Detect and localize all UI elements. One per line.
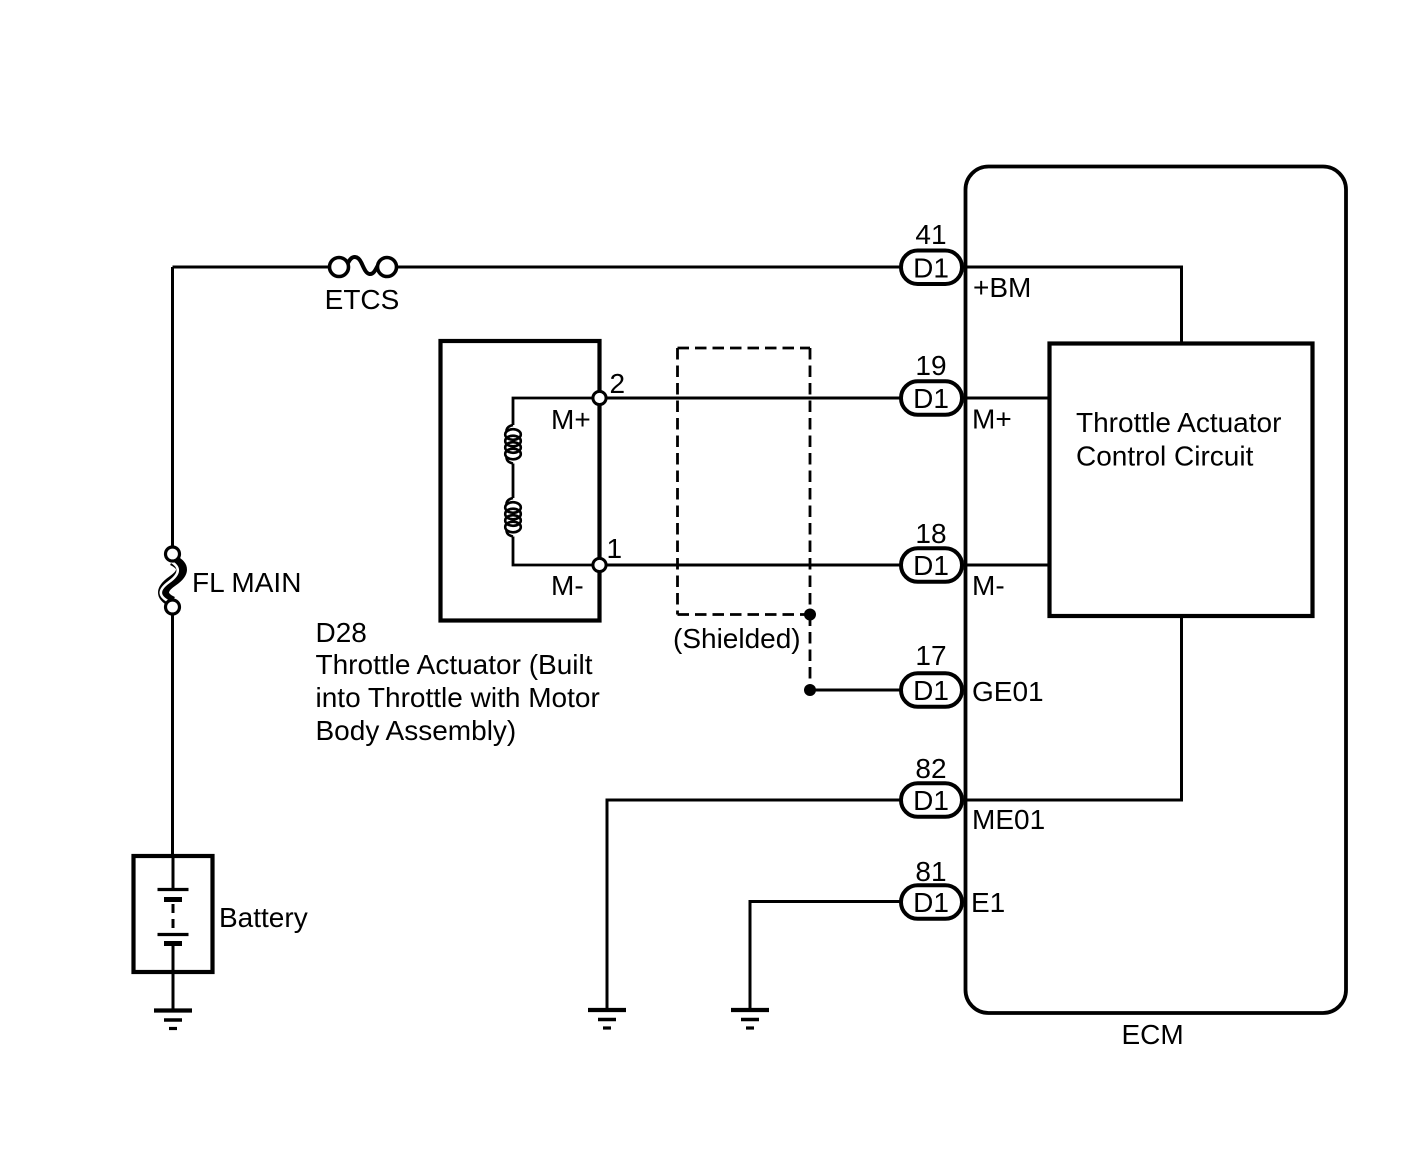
svg-text:ME01: ME01 (972, 804, 1045, 835)
svg-text:Body Assembly): Body Assembly) (316, 715, 517, 746)
wire: motor inner bottom to pin 1 (513, 537, 597, 566)
svg-text:Throttle Actuator: Throttle Actuator (1076, 407, 1281, 438)
svg-text:M+: M+ (551, 404, 591, 435)
svg-text:M-: M- (551, 570, 584, 601)
svg-text:1: 1 (607, 533, 623, 564)
svg-text:D1: D1 (913, 887, 949, 918)
wire: battery positive feed, top horizontal left of fuse (173, 266, 329, 269)
wire: E1 ground branch vertical (749, 900, 752, 1009)
svg-text:D28: D28 (316, 617, 367, 648)
connector D1 pin 18 (901, 548, 962, 582)
svg-text:17: 17 (915, 640, 946, 671)
battery plate short - (cell 1) (164, 897, 182, 902)
motor winding coil upper (505, 425, 521, 464)
svg-text:18: 18 (915, 518, 946, 549)
ground: ME01 ground (588, 1010, 626, 1028)
wire: ME01 ground branch horizontal (607, 799, 901, 802)
junction dot on shield box (804, 609, 816, 621)
svg-text:Control Circuit: Control Circuit (1076, 441, 1254, 472)
svg-text:into Throttle with Motor: into Throttle with Motor (316, 682, 600, 713)
fuse ETCS (330, 257, 397, 277)
ground: battery ground (154, 1011, 192, 1029)
wire: battery bottom lead (172, 946, 175, 972)
wire: M- internal to control circuit (963, 564, 1050, 567)
wire: shield drain to connector D1-17 (810, 689, 901, 692)
wire: motor inner middle (512, 464, 515, 499)
svg-text:Battery: Battery (219, 902, 308, 933)
junction dot on shield drain (804, 684, 816, 696)
wire: battery to ground (172, 971, 175, 1010)
wire: left vertical from top wire down to FL MAIN (171, 267, 174, 549)
wire: top horizontal from fuse to +BM connector (398, 266, 902, 269)
ground: E1 ground (731, 1010, 769, 1028)
svg-text:82: 82 (915, 753, 946, 784)
fusible link FL MAIN (161, 547, 182, 614)
svg-text:D1: D1 (913, 675, 949, 706)
svg-text:41: 41 (915, 219, 946, 250)
svg-text:FL MAIN: FL MAIN (192, 567, 301, 598)
throttle actuator control circuit block U1 (1050, 344, 1313, 617)
pin 2 terminal circle (593, 391, 606, 404)
wire: +BM internal to control circuit (963, 267, 1182, 344)
svg-text:GE01: GE01 (972, 676, 1044, 707)
wire: M+ from pin 2 to connector D1-19 (600, 397, 902, 400)
svg-text:19: 19 (915, 350, 946, 381)
connector D1 pin 17 (901, 673, 962, 707)
wire: E1 ground branch horizontal (750, 900, 901, 903)
throttle actuator D28 box (441, 341, 600, 621)
svg-text:D1: D1 (913, 252, 949, 283)
motor winding coil lower (505, 498, 521, 537)
connector D1 pin 81 (901, 885, 962, 919)
shield box (dashed) (678, 348, 811, 615)
svg-text:M-: M- (972, 570, 1005, 601)
svg-text:M+: M+ (972, 404, 1012, 435)
connector D1 pin 82 (901, 783, 962, 817)
wire: M- from pin 1 to connector D1-18 (600, 564, 902, 567)
svg-text:2: 2 (610, 368, 626, 399)
svg-text:D1: D1 (913, 550, 949, 581)
svg-text:(Shielded): (Shielded) (673, 623, 801, 654)
svg-text:D1: D1 (913, 785, 949, 816)
svg-text:81: 81 (915, 856, 946, 887)
svg-text:D1: D1 (913, 383, 949, 414)
battery plate long + (cell 1) (158, 888, 189, 891)
battery plate short - (cell 2) (164, 941, 182, 946)
connector D1 pin 19 (901, 381, 962, 415)
wire: battery top lead (172, 856, 175, 888)
wire: motor inner top from pin 2 (513, 398, 597, 425)
svg-text:ECM: ECM (1122, 1019, 1184, 1050)
battery B1 (134, 856, 213, 972)
wire: M+ internal to control circuit (963, 397, 1050, 400)
ECM box (966, 167, 1347, 1014)
svg-text:E1: E1 (971, 887, 1005, 918)
connector D1 pin 41 (901, 251, 962, 285)
wire: shield drain (dashed) (809, 615, 812, 691)
wire: ME01 ground branch vertical (606, 799, 609, 1010)
wire: FL MAIN down to battery (171, 613, 174, 856)
svg-text:Throttle Actuator (Built: Throttle Actuator (Built (316, 649, 593, 680)
pin 1 terminal circle (593, 558, 606, 571)
svg-text:ETCS: ETCS (325, 284, 400, 315)
battery plate long + (cell 2) (158, 933, 189, 936)
wire: ME01 internal to control circuit (963, 616, 1182, 800)
battery dashed middle (more cells) (172, 904, 175, 930)
svg-text:+BM: +BM (973, 272, 1031, 303)
